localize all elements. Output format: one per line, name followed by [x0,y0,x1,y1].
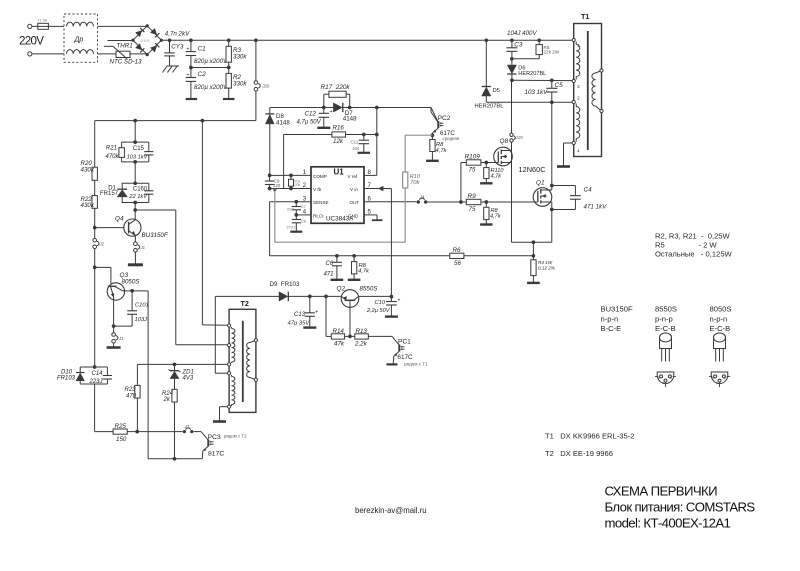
wire choke to bridge top [98,25,148,27]
node PC2 emitter [431,133,435,137]
label T1 type [545,432,634,441]
thermistor THR1 NTC [104,46,130,59]
svg-text:8550S: 8550S [655,305,677,314]
jumper J20 [254,81,270,91]
ground R8b [426,160,439,162]
label R13 [354,328,368,348]
label D1 [100,186,119,197]
title line 2 [605,500,756,515]
label C1 value [194,58,228,65]
U1 pin6 OUT [350,196,417,205]
svg-text:n-p-n: n-p-n [710,314,728,323]
fuse F1 [38,19,65,30]
svg-text:n-p-n: n-p-n [601,314,619,323]
wire Q4 node to T2 pin2 riser [135,210,229,345]
wire C14 to R25 [95,384,114,432]
svg-text:220V: 220V [19,35,44,48]
label C15 [127,146,149,161]
wire Q1 source down [551,202,553,242]
bridge rectifier D104 outline [131,24,163,56]
ground T1 [557,165,570,168]
label C7 [287,204,307,211]
T1 primary winding upper [576,42,580,80]
label PC3 note [224,433,247,438]
svg-text:E-C-B: E-C-B [710,324,731,333]
svg-text:THR1: THR1 [117,42,133,49]
svg-text:R16: R16 [333,125,345,132]
svg-text:Rt,Ct: Rt,Ct [313,214,324,219]
ground R8d [480,223,492,225]
ground R2 [223,98,235,100]
wire R4 riser [532,242,536,260]
svg-text:4,7k: 4,7k [436,148,448,154]
resistor R9 [466,199,533,204]
wire bottom return [148,458,202,460]
svg-text:FR103: FR103 [57,376,76,382]
capacitor C1 [186,38,197,67]
svg-text:Q1: Q1 [536,180,545,187]
svg-text:4V3: 4V3 [183,376,194,382]
wire Q3 collector feed [95,267,111,283]
capacitor CY3 [164,38,174,66]
svg-text:C15: C15 [133,146,145,152]
svg-text:R109: R109 [465,154,481,161]
wire vref riser [376,108,378,176]
label C2 value [194,84,228,91]
svg-text:75: 75 [469,206,476,213]
capacitor C7 [292,202,301,215]
capacitor C2 [186,68,197,100]
wire Q4 emitter to J1 [134,236,136,242]
ground Q3 emitter [107,346,121,349]
ground C1 C2 [186,98,198,100]
zener ZD1 [169,364,181,389]
svg-text:+: + [187,47,190,53]
label R8c [358,263,370,275]
svg-text:R2, R3, R21 - 0,25W: R2, R3, R21 - 0,25W [655,232,731,241]
wire Q3 collector right [123,289,148,293]
T1 secondary winding [592,71,602,112]
svg-text:J4: J4 [419,194,425,199]
ground T2 [213,420,226,423]
jumper J1 [134,242,145,252]
wire C13node to R14 [326,296,331,336]
capacitor C8 [292,215,301,231]
label PC2 note [443,136,460,141]
svg-text:C160: C160 [133,186,148,192]
svg-text:c: c [662,381,664,385]
resistor R20 [92,167,97,180]
svg-text:J19: J19 [515,135,524,140]
wire R23 top [136,364,138,385]
svg-text:470: 470 [126,394,137,400]
wire C1 to R3 node [191,66,231,70]
T1 pin3 terminal [572,79,580,89]
node D10 branch [93,365,97,369]
svg-text:T2: T2 [241,299,249,308]
svg-text:22k 2W: 22k 2W [544,50,560,55]
svg-text:+: + [315,310,318,316]
label R24 [162,391,174,403]
label C160 [128,186,148,200]
svg-text:рядом с T1: рядом с T1 [404,362,428,367]
label C1 [198,46,207,53]
svg-text:p-n-p: p-n-p [655,314,673,323]
wire bridge left corner [108,40,133,42]
label R3 [233,47,247,60]
svg-text:820µ x200V: 820µ x200V [194,84,228,91]
label BU3150F pinout [601,305,633,334]
label C13 [288,312,311,326]
label Dr [74,37,84,44]
optocoupler PC2 [431,108,444,136]
label R9 [468,193,477,213]
svg-text:e: e [658,376,660,380]
label C5 [555,82,564,89]
optocoupler PC1 [392,336,405,364]
wire D9 to Q2 [288,295,341,299]
svg-text:430k: 430k [81,202,95,209]
svg-text:75: 75 [469,166,476,173]
svg-text:berezkin-av@mail.ru: berezkin-av@mail.ru [355,506,427,515]
svg-text:220: 220 [273,183,281,188]
U1 pin1 COMP [268,170,327,179]
wire T2 pin4 riser [215,296,227,373]
label C101 [135,302,149,323]
node N input terminal [28,52,64,56]
label PC1 note [404,362,428,367]
node L input terminal [28,24,38,28]
svg-text:12N60C: 12N60C [519,165,547,174]
label Q8 [500,138,509,145]
choke winding top [67,22,94,26]
resistor R14 [331,334,344,339]
svg-text:PC2: PC2 [438,115,451,122]
svg-text:C1: C1 [198,46,207,53]
resistor R5 2W [512,38,543,58]
label C8 [287,218,307,229]
label R16 [333,125,345,132]
svg-text:рядом с T2: рядом с T2 [224,433,247,438]
svg-text:Q8: Q8 [500,138,509,145]
U1 pin7 Vin [350,183,391,192]
svg-text:PC1: PC1 [398,339,411,346]
label R6 [453,247,462,267]
capacitor C160 [144,191,153,194]
svg-text:U1: U1 [334,168,345,177]
label R14 [333,328,345,348]
wire J1b to ground [113,328,115,347]
resistor R6 [450,253,464,258]
resistor R13 [355,334,369,339]
drawing TO-92 package 8550S [655,333,676,387]
wire pin7 drop [390,189,392,297]
svg-text:J1: J1 [118,336,123,341]
label U1 [334,168,345,177]
svg-text:COMP: COMP [313,174,327,179]
svg-text:D5: D5 [493,88,500,94]
svg-text:471: 471 [324,272,334,278]
svg-text:Q4: Q4 [115,215,124,222]
svg-text:C4: C4 [584,186,593,193]
T1 pin4 terminal [572,141,580,153]
label D9 [270,281,300,288]
diode D5 [482,38,491,102]
svg-text:СХЕМА ПЕРВИЧКИ: СХЕМА ПЕРВИЧКИ [605,484,718,499]
optocoupler PC3 [201,432,214,459]
transistor Q3 8050S [107,283,124,300]
wire J2 down [94,249,96,367]
wire R13 to PC1 [368,335,392,337]
capacitor C15 [144,152,153,155]
svg-text:J3: J3 [184,424,190,429]
svg-text:J2: J2 [99,242,105,247]
D10 C14 parallel network [80,367,107,384]
diode D8 [265,108,274,176]
T2 secondary terminals [254,339,257,382]
transistor Q8 mosfet [494,147,513,166]
ground C6 [331,279,344,281]
label PC1 817C [397,354,413,361]
svg-text:R23: R23 [125,387,137,393]
capacitor C6 [332,256,342,280]
capacitor C12 [319,108,333,128]
svg-text:104J 400V: 104J 400V [507,30,537,37]
label PC3 817C [208,451,224,458]
svg-text:104: 104 [352,146,360,151]
title line 3 [605,516,731,531]
diode D7 [333,103,342,112]
wire T2 pin5 to ground [220,407,228,421]
svg-text:R13: R13 [356,328,368,335]
label ZD1 [182,369,194,381]
svg-text:NTC SD-13: NTC SD-13 [110,59,143,66]
svg-text:T1: T1 [581,12,589,21]
svg-text:150: 150 [116,436,127,443]
T2 pin1 terminal [228,324,231,327]
resistor R25 [113,429,127,434]
capacitor C11 [359,135,369,153]
svg-text:70k: 70k [410,180,420,186]
svg-text:56: 56 [454,260,461,267]
wire T2 pin1 feed [202,121,227,326]
U1 pin4 RtCt [294,210,324,219]
jumper J1b [112,333,124,343]
wire D5 to T1 pin2 [486,101,572,103]
wire NTC to bridge bottom [130,53,147,55]
label D7 [343,110,357,123]
svg-text:D104: D104 [141,39,150,43]
ground CY3 [163,66,180,73]
D1 C160 parallel network [122,181,149,202]
svg-text:8050S: 8050S [122,279,141,286]
svg-text:R25: R25 [115,423,127,430]
svg-text:e: e [712,376,714,380]
ground C13 [303,326,316,328]
svg-text:272J: 272J [287,224,296,229]
svg-text:ZD1: ZD1 [182,369,194,375]
label C12 [297,111,322,126]
wire R21C15 to D1C160 [134,162,136,183]
resistor R3 [226,38,231,67]
svg-text:103J: 103J [135,317,148,323]
svg-text:T1 DX KK9966 ERL-35-2: T1 DX KK9966 ERL-35-2 [545,432,634,441]
svg-text:430k: 430k [81,166,95,173]
wire Q2 collector right [359,295,394,299]
svg-text:R21: R21 [106,146,117,152]
T2 pin4 terminal [228,372,231,375]
svg-text:8050S: 8050S [710,305,732,314]
svg-text:BU3150F: BU3150F [601,305,633,314]
label Q2 8550S [360,286,379,293]
label C4 [584,186,608,210]
label C5 value [525,89,549,96]
label R5 [544,45,560,55]
T2 secondary winding [247,340,256,379]
svg-text:R17 220k: R17 220k [321,84,351,91]
diode D10 [76,373,85,381]
resistor R17 [324,91,350,107]
wire J1 to ground [134,252,136,264]
svg-text:4,7n 2kV: 4,7n 2kV [165,31,190,38]
wire J20 down [95,91,256,121]
ground R110 [480,182,492,184]
label 8050S pinout [710,305,732,334]
svg-text:2,2k: 2,2k [354,341,368,348]
transformer T1 box [574,24,602,157]
svg-text:4148: 4148 [276,120,290,127]
label R10 [410,174,421,186]
resistor R4 [531,260,536,283]
node start rail left [133,119,204,123]
label R20 [81,160,95,174]
svg-text:c: c [716,381,718,385]
svg-text:V ref: V ref [348,174,358,179]
transistor Q1 mosfet 12N60C [533,188,552,207]
svg-text:средняя: средняя [443,136,460,141]
label CY3 [171,43,184,50]
capacitor C5 [546,80,557,104]
capacitor C101 [127,291,137,326]
resistor R21 [119,148,125,158]
ground C11 [358,152,371,154]
svg-text:T2 DX EE-19 9966: T2 DX EE-19 9966 [545,449,613,458]
wire choke to NTC [98,53,117,55]
label D10 [57,369,76,381]
T2 core [242,321,244,402]
label PC1 [398,339,411,346]
label T2 [241,299,249,308]
node Q2 base R13 R14 [345,335,355,339]
wire PC2 collector [431,108,438,122]
label R17 220k [321,84,351,91]
svg-text:20k: 20k [295,183,301,187]
svg-text:817C: 817C [208,451,224,458]
label C11 [351,140,360,151]
T1 primary winding lower [576,104,580,142]
label R22 [81,196,95,209]
capacitor C14 [103,376,112,380]
svg-text:12k: 12k [333,138,344,145]
svg-text:+: + [330,109,333,115]
wire Q8 vertical [511,142,513,242]
svg-text:V fb: V fb [313,187,322,192]
T1 pin2 terminal [572,96,580,104]
wire R20-R22 [94,180,96,195]
label C3 [514,41,523,48]
svg-text:2,2µ 50V: 2,2µ 50V [366,308,391,314]
T2 pin3 terminal [228,363,231,366]
label R109 [465,154,481,174]
resistor R22 [92,196,97,209]
label 12N60C [519,165,547,174]
svg-text:8550S: 8550S [360,286,379,293]
wire C101 bottom [114,325,133,327]
svg-text:47µ 35V: 47µ 35V [288,320,311,326]
wire Q3 collector long drop [147,291,149,459]
wire PC2 to R10 [405,135,432,172]
jumper J2 [93,238,105,248]
wire left column upper [94,121,96,168]
svg-text:330k: 330k [233,53,247,60]
ground C12 [317,127,330,129]
label 4,7n 2kV [165,31,190,38]
svg-text:4,7µ 50V: 4,7µ 50V [297,119,322,125]
label email [355,506,427,515]
svg-text:D9 FR103: D9 FR103 [270,281,300,288]
node C1-C2 [189,66,193,70]
transistor Q2 8550S [341,290,359,308]
svg-text:+: + [398,297,401,303]
choke Dr dashed box [64,14,98,62]
svg-text:C10: C10 [375,300,386,306]
wire rail to R21C15 [133,121,137,144]
svg-text:Др: Др [74,37,84,44]
wire J3 to PC3 [194,431,201,433]
wire R24 bottom [173,402,177,461]
label THR1 [117,42,133,49]
label Q1 [536,180,545,187]
label 104J 400V [507,30,537,37]
svg-text:V in: V in [350,187,358,192]
label UC3843A [326,216,354,223]
label Q4 [115,215,124,222]
capacitor C4 [550,184,581,212]
svg-text:C3: C3 [514,41,523,48]
svg-text:820µ x200V: 820µ x200V [194,58,228,65]
bridge diode top-right [151,28,160,37]
wire R10 feedback path [273,188,405,242]
label R16 value [333,138,344,145]
svg-text:T1 5A: T1 5A [38,19,48,23]
wire sense rail [270,254,534,258]
svg-text:C6: C6 [326,261,334,267]
svg-text:B-C-E: B-C-E [601,324,622,333]
T2 pin5 terminal [228,405,231,408]
svg-text:C14: C14 [92,371,104,377]
wire R22 to Q4 base node [93,208,97,238]
label R8d [490,208,502,220]
svg-text:47k: 47k [334,341,345,348]
wire D1C160 to Q4 collector [133,201,137,220]
svg-text:b: b [670,376,672,380]
svg-text:BU3150F: BU3150F [142,232,169,239]
jumper J4 [417,194,428,203]
U1 pin2 Vfb [268,183,322,192]
wire Q4 base [95,227,124,229]
label PC3 [208,434,221,441]
svg-text:R14: R14 [333,328,345,335]
